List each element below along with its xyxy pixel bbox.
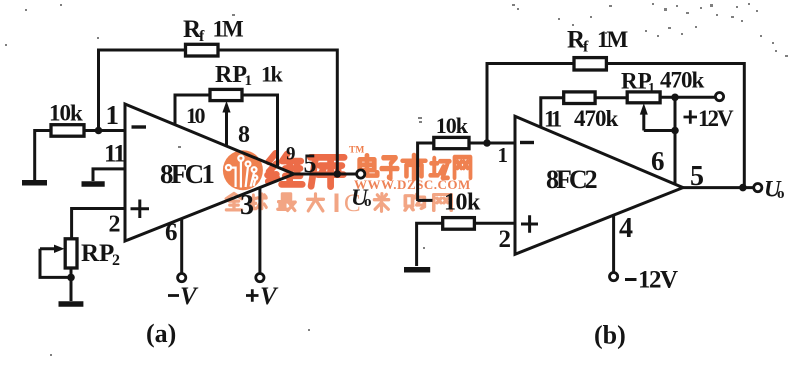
svg-text:1M: 1M: [597, 27, 629, 52]
svg-text:6: 6: [165, 219, 178, 246]
svg-text:f: f: [583, 39, 589, 56]
svg-text:10: 10: [186, 103, 206, 128]
svg-text:10k: 10k: [436, 113, 469, 138]
svg-text:2: 2: [112, 252, 120, 269]
svg-text:1: 1: [648, 81, 655, 96]
svg-text:1M: 1M: [213, 17, 245, 42]
svg-text:11: 11: [104, 141, 125, 168]
svg-text:f: f: [199, 28, 205, 45]
svg-text:2: 2: [499, 226, 512, 253]
svg-text:RP: RP: [81, 240, 114, 267]
svg-text:RP: RP: [215, 62, 247, 88]
svg-text:4: 4: [619, 213, 633, 244]
svg-text:1: 1: [245, 73, 253, 89]
svg-text:(b): (b): [594, 321, 626, 350]
svg-text:470k: 470k: [574, 106, 619, 131]
svg-text:V: V: [260, 283, 279, 310]
svg-text:5: 5: [304, 149, 317, 178]
svg-text:1: 1: [498, 143, 509, 167]
svg-text:8: 8: [238, 122, 250, 148]
svg-text:5: 5: [690, 161, 704, 192]
svg-text:12V: 12V: [638, 267, 678, 294]
svg-text:12V: 12V: [698, 106, 734, 131]
svg-text:8FC1: 8FC1: [160, 159, 214, 189]
svg-text:V: V: [180, 283, 199, 310]
svg-text:1k: 1k: [261, 62, 284, 87]
svg-text:(a): (a): [146, 319, 176, 348]
svg-text:2: 2: [109, 212, 121, 238]
svg-text:10k: 10k: [49, 101, 83, 126]
svg-text:TM: TM: [349, 146, 364, 156]
svg-text:1: 1: [106, 100, 120, 130]
svg-text:10k: 10k: [444, 190, 481, 216]
svg-text:6: 6: [651, 146, 665, 176]
svg-text:8FC2: 8FC2: [546, 165, 597, 194]
svg-text:o: o: [364, 194, 372, 210]
svg-text:o: o: [777, 186, 785, 202]
svg-text:11: 11: [544, 107, 562, 132]
svg-text:9: 9: [286, 144, 296, 165]
svg-text:3: 3: [240, 190, 254, 221]
svg-text:470k: 470k: [660, 68, 705, 93]
